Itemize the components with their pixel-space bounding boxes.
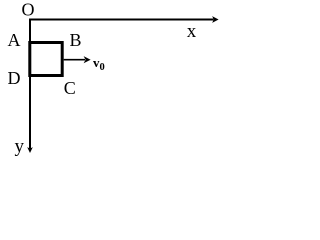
- svg-text:y: y: [15, 136, 25, 157]
- svg-text:x: x: [187, 21, 197, 42]
- y-axis arrowhead: [27, 147, 33, 153]
- x-axis arrowhead: [212, 16, 219, 23]
- x-axis wire: [29, 19, 214, 21]
- svg-text:v0: v0: [93, 55, 105, 73]
- svg-text:A: A: [8, 30, 21, 50]
- square ABCD: [30, 43, 62, 76]
- svg-text:D: D: [8, 68, 21, 88]
- svg-text:O: O: [22, 0, 35, 20]
- y-axis wire: [29, 19, 31, 149]
- svg-text:C: C: [64, 78, 76, 98]
- velocity arrow wire: [64, 59, 85, 61]
- svg-text:B: B: [70, 30, 82, 50]
- velocity arrowhead: [84, 56, 91, 63]
